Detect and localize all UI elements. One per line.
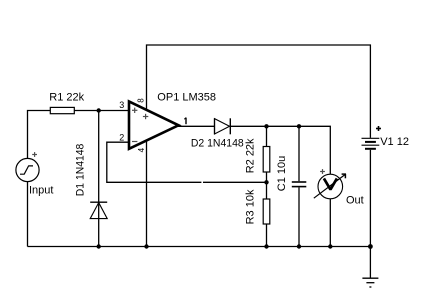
capacitor C1 plates xyxy=(292,182,307,187)
voltmeter arrow xyxy=(314,174,346,198)
node D1 bottom junction xyxy=(97,244,101,248)
wire bottom ground net xyxy=(28,246,371,248)
resistor R1 xyxy=(50,107,129,113)
voltmeter V letter xyxy=(324,178,337,189)
svg-text:R1 22k: R1 22k xyxy=(49,92,84,104)
wire top supply net: op-amp pin8 to battery plus xyxy=(147,45,371,138)
node pin4 bottom junction xyxy=(144,244,148,248)
op-amp supply plus mark xyxy=(143,114,148,119)
pin 1 label xyxy=(184,118,186,125)
battery V1 plates xyxy=(362,138,380,149)
svg-text:8: 8 xyxy=(137,98,146,103)
svg-text:4: 4 xyxy=(137,147,146,152)
svg-text:R2 22k: R2 22k xyxy=(245,138,257,173)
wire D2 cathode to voltmeter corner xyxy=(230,126,330,174)
wire op-amp output to D2 anode xyxy=(178,125,215,127)
voltage generator VG1 Input circle xyxy=(16,158,39,181)
wire C1 top stub xyxy=(298,126,300,181)
svg-text:3: 3 xyxy=(119,100,124,110)
wire battery bottom to ground net xyxy=(369,150,371,247)
svg-text:Out: Out xyxy=(346,195,364,207)
node voltmeter bottom junction xyxy=(328,244,332,248)
svg-text:2: 2 xyxy=(119,132,124,142)
plus mark of battery xyxy=(376,126,381,131)
wire R2 bottom stub xyxy=(266,172,268,182)
op-amp inverting minus mark xyxy=(132,141,137,143)
wire op-amp pin4 to ground net xyxy=(146,140,148,247)
node C1 top junction xyxy=(297,124,301,128)
wire C1 bottom stub xyxy=(298,187,300,246)
node R2/R3/feedback junction xyxy=(264,180,268,184)
op-amp noninverting plus mark xyxy=(132,108,137,113)
wire R2 top stub xyxy=(266,126,268,146)
wire voltmeter bottom stub xyxy=(329,199,331,247)
node C1 bottom junction xyxy=(297,244,301,248)
node R2 top junction xyxy=(264,124,268,128)
diode D2 symbol xyxy=(215,118,231,134)
diode D1 symbol xyxy=(90,202,107,218)
wire R3 bottom stub xyxy=(266,224,268,247)
svg-text:D2 1N4148: D2 1N4148 xyxy=(191,138,244,150)
svg-text:OP1 LM358: OP1 LM358 xyxy=(157,92,216,104)
wire input branch left vertical and top xyxy=(28,111,51,247)
resistor R2 xyxy=(263,147,270,173)
wire R3 top stub xyxy=(266,182,268,199)
ground xyxy=(362,278,378,287)
svg-text:Input: Input xyxy=(29,185,53,197)
wire ground stem xyxy=(369,247,371,279)
plus mark of voltmeter xyxy=(320,169,325,174)
wire op-amp pin2 feedback: left, down, right to R2/R3 node (with tiny gap) xyxy=(107,142,267,182)
plus mark of input source xyxy=(32,152,37,157)
svg-text:R3 10k: R3 10k xyxy=(245,189,257,224)
svg-text:C1 10u: C1 10u xyxy=(276,156,288,191)
svg-text:V1 12: V1 12 xyxy=(380,136,409,148)
node battery/ground junction xyxy=(368,244,373,249)
node junction R1/D1/pin3 xyxy=(97,108,101,112)
resistor R3 xyxy=(263,199,270,224)
voltmeter VM1 circle xyxy=(318,174,343,199)
op-amp OP1 triangle xyxy=(129,102,179,149)
wire D1 branch vertical xyxy=(98,111,100,247)
node R3 bottom junction xyxy=(264,244,268,248)
svg-text:D1 1N4148: D1 1N4148 xyxy=(74,144,86,197)
